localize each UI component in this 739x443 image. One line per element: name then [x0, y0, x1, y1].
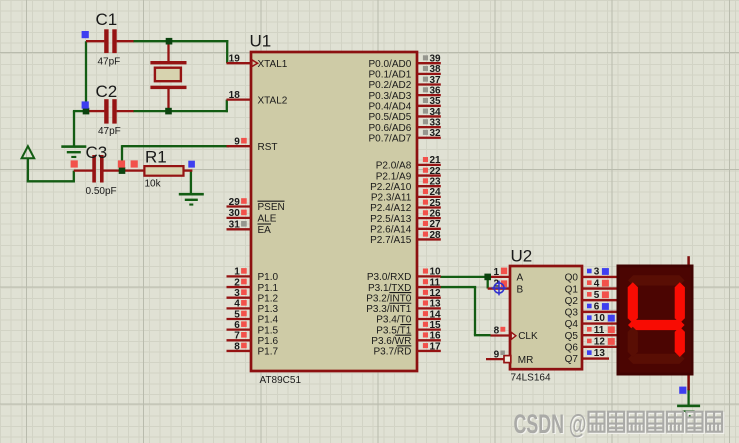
svg-text:18: 18 [229, 90, 241, 101]
svg-text:P3.7/RD: P3.7/RD [374, 347, 412, 358]
svg-text:1: 1 [234, 267, 240, 278]
svg-text:27: 27 [430, 219, 442, 230]
svg-text:C2: C2 [96, 82, 118, 101]
svg-text:P2.5/A13: P2.5/A13 [370, 214, 412, 225]
svg-text:C1: C1 [96, 10, 118, 29]
svg-text:P2.3/A11: P2.3/A11 [371, 193, 412, 204]
svg-text:EA: EA [258, 225, 272, 236]
svg-text:10: 10 [594, 313, 606, 324]
svg-text:15: 15 [430, 320, 442, 331]
svg-text:ALE: ALE [258, 214, 277, 225]
svg-text:P0.6/AD6: P0.6/AD6 [368, 123, 411, 134]
svg-text:Q0: Q0 [565, 273, 579, 284]
svg-text:21: 21 [430, 155, 442, 166]
svg-text:9: 9 [234, 137, 240, 148]
svg-text:17: 17 [430, 341, 442, 352]
svg-text:Q1: Q1 [565, 284, 579, 295]
svg-text:31: 31 [229, 220, 241, 231]
svg-text:19: 19 [229, 54, 241, 65]
svg-text:P3.0/RXD: P3.0/RXD [367, 272, 411, 283]
svg-text:11: 11 [594, 325, 605, 336]
svg-text:R1: R1 [145, 148, 167, 167]
svg-text:23: 23 [430, 177, 442, 188]
svg-text:P2.6/A14: P2.6/A14 [370, 225, 412, 236]
svg-text:Q7: Q7 [565, 354, 579, 365]
svg-text:CSDN @: CSDN @ [514, 408, 587, 439]
svg-text:P1.3: P1.3 [258, 304, 279, 315]
svg-text:3: 3 [234, 288, 240, 299]
svg-text:CLK: CLK [518, 331, 538, 342]
svg-text:35: 35 [430, 96, 442, 107]
svg-text:P0.7/AD7: P0.7/AD7 [368, 133, 411, 144]
svg-text:37: 37 [430, 75, 442, 86]
svg-text:P1.4: P1.4 [258, 315, 279, 326]
svg-text:6: 6 [594, 302, 600, 313]
svg-text:32: 32 [430, 128, 442, 139]
svg-text:47pF: 47pF [98, 57, 121, 68]
svg-text:28: 28 [430, 230, 442, 241]
svg-text:P0.4/AD4: P0.4/AD4 [368, 102, 411, 113]
svg-text:U2: U2 [511, 247, 533, 266]
svg-text:74LS164: 74LS164 [511, 372, 551, 383]
svg-text:XTAL1: XTAL1 [258, 59, 288, 70]
svg-text:9: 9 [494, 349, 500, 360]
svg-text:P2.2/A10: P2.2/A10 [370, 182, 412, 193]
svg-text:P0.3/AD3: P0.3/AD3 [368, 91, 411, 102]
svg-text:Q2: Q2 [565, 296, 579, 307]
svg-text:P1.6: P1.6 [258, 336, 279, 347]
svg-text:5: 5 [594, 290, 600, 301]
svg-text:1: 1 [493, 267, 499, 278]
svg-text:29: 29 [229, 197, 241, 208]
svg-text:5: 5 [234, 309, 240, 320]
svg-text:16: 16 [430, 331, 442, 342]
svg-text:P2.0/A8: P2.0/A8 [376, 161, 412, 172]
svg-text:P3.3/INT1: P3.3/INT1 [366, 304, 411, 315]
svg-text:0.50pF: 0.50pF [86, 186, 117, 197]
svg-text:30: 30 [229, 208, 241, 219]
svg-text:P2.7/A15: P2.7/A15 [370, 235, 412, 246]
svg-text:36: 36 [430, 85, 442, 96]
svg-text:P0.0/AD0: P0.0/AD0 [368, 59, 411, 70]
svg-text:26: 26 [430, 208, 442, 219]
svg-text:3: 3 [594, 267, 600, 278]
svg-text:P1.1: P1.1 [258, 283, 279, 294]
svg-text:A: A [517, 273, 524, 284]
svg-text:RST: RST [258, 142, 278, 153]
svg-text:22: 22 [430, 166, 442, 177]
svg-text:6: 6 [234, 320, 240, 331]
svg-text:7: 7 [234, 331, 240, 342]
svg-text:Q6: Q6 [565, 343, 579, 354]
svg-text:P1.2: P1.2 [258, 293, 279, 304]
svg-text:47pF: 47pF [98, 126, 121, 137]
svg-text:13: 13 [594, 348, 606, 359]
svg-text:P1.5: P1.5 [258, 325, 279, 336]
svg-text:AT89C51: AT89C51 [260, 375, 302, 386]
svg-text:Q4: Q4 [565, 319, 579, 330]
svg-text:39: 39 [430, 54, 442, 65]
svg-text:U1: U1 [250, 32, 272, 51]
svg-text:4: 4 [594, 278, 600, 289]
svg-text:25: 25 [430, 198, 442, 209]
svg-text:10k: 10k [145, 179, 162, 190]
svg-text:24: 24 [430, 187, 442, 198]
svg-text:P0.1/AD1: P0.1/AD1 [368, 70, 411, 81]
svg-text:B: B [517, 284, 524, 295]
svg-text:P1.7: P1.7 [258, 347, 279, 358]
svg-text:14: 14 [430, 309, 442, 320]
svg-text:P0.2/AD2: P0.2/AD2 [368, 80, 411, 91]
svg-text:2: 2 [234, 277, 240, 288]
svg-text:10: 10 [430, 267, 442, 278]
svg-text:PSEN: PSEN [258, 202, 285, 213]
svg-text:P1.0: P1.0 [258, 272, 279, 283]
svg-text:13: 13 [430, 299, 442, 310]
svg-text:MR: MR [518, 355, 534, 366]
svg-text:8: 8 [234, 341, 240, 352]
svg-text:C3: C3 [86, 143, 108, 162]
svg-text:33: 33 [430, 117, 442, 128]
svg-text:Q5: Q5 [565, 331, 579, 342]
svg-text:11: 11 [430, 277, 441, 288]
svg-text:P2.4/A12: P2.4/A12 [370, 203, 412, 214]
svg-text:P0.5/AD5: P0.5/AD5 [368, 112, 411, 123]
svg-text:12: 12 [594, 337, 606, 348]
svg-text:4: 4 [234, 299, 240, 310]
svg-text:38: 38 [430, 64, 442, 75]
svg-text:8: 8 [494, 325, 500, 336]
svg-text:Q3: Q3 [565, 308, 579, 319]
svg-text:P2.1/A9: P2.1/A9 [376, 171, 412, 182]
svg-text:XTAL2: XTAL2 [258, 95, 288, 106]
svg-text:12: 12 [430, 288, 442, 299]
svg-text:34: 34 [430, 107, 442, 118]
